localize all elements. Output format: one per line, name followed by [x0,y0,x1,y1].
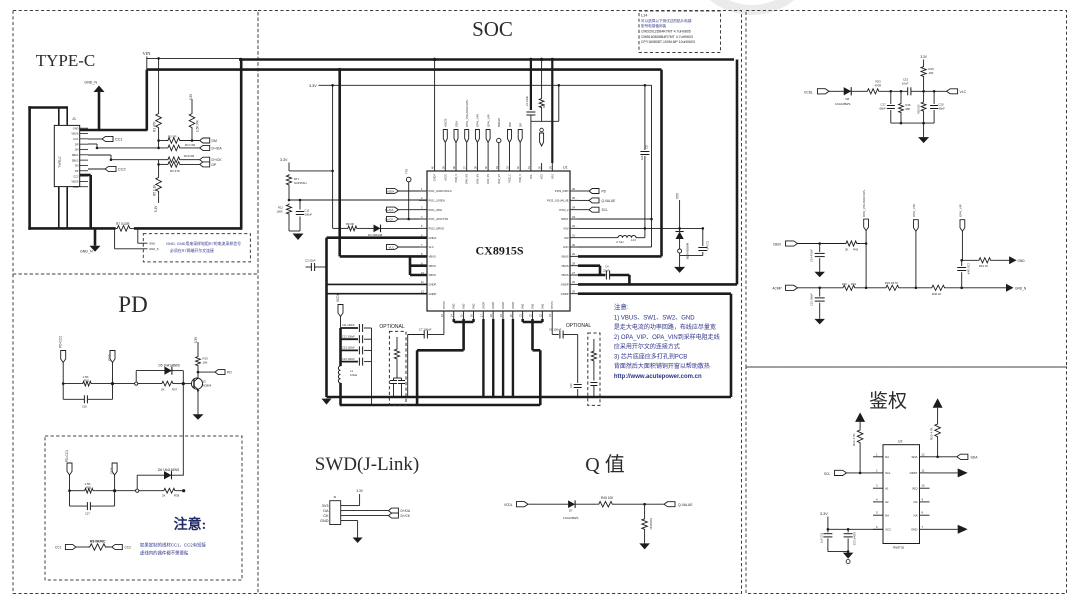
svg-text:IRQ: IRQ [912,486,918,490]
junction VIN-R1 [157,57,160,60]
tag D+/DA (swd) [388,508,398,513]
U1 right pin 31 stub [570,237,578,239]
wire R33 top [541,60,543,98]
svg-text:PD: PD [227,371,232,375]
wire vlc gnd rail [891,122,934,124]
wire divider to pin2 [289,199,427,201]
tag OPA_VOL vertical [864,219,869,231]
svg-text:GNDP: GNDP [482,301,485,309]
wire SW2 join [454,321,474,324]
wire DP row b [184,163,200,165]
junction bus1 pin40 [433,58,436,61]
bus1 right corner vertical x737 [736,60,739,285]
junction vlc gnd n1 [900,122,903,125]
wire C10 to busA [577,389,579,397]
svg-text:ISEN: ISEN [387,189,394,193]
wire top tag DP [519,143,521,163]
svg-text:DP: DP [519,123,523,127]
svg-text:PIO1_1/ISEN: PIO1_1/ISEN [429,198,445,202]
svg-text:CC2: CC2 [73,174,79,178]
svg-text:SW2: SW2 [463,303,466,309]
wire pin35 to QV tag [578,199,589,201]
wire D5 left up [135,371,137,382]
capacitor C4 22uF [605,271,607,280]
wire C7 down [407,335,409,398]
svg-text:A1: A1 [885,486,889,490]
svg-text:CK: CK [323,514,329,518]
wire CC1 to R8 [76,546,88,548]
U1 right pin 27 stub [570,274,578,276]
tag OPA_VIN vertical [914,220,919,232]
svg-text:C12 100nF: C12 100nF [342,334,355,338]
resistor R23 470R [866,89,883,94]
svg-text:DN: DN [75,148,79,152]
joint R12-C11 [289,230,300,232]
wire SW2 down [462,322,465,350]
GND busB [340,404,541,407]
U2 left pin 4 stub [873,501,883,503]
resistor R46 510R [642,518,648,533]
wire C2 top [702,228,704,246]
svg-text:1: 1 [421,187,423,191]
tag ISEN (rt) [786,241,798,246]
svg-text:GND: GND [73,126,79,130]
svg-text:CC1: CC1 [73,137,79,141]
J1 right pin stub GND [80,127,88,129]
junction DM row left [157,139,160,142]
wire GND_N bottom stem [94,228,97,245]
GND right vertical x731 [730,294,733,397]
wire DA row b [184,147,200,149]
capacitor C14 470nF [815,252,825,254]
wire 3.3V divider horiz [289,170,333,172]
wire VCDL to D7 [528,503,568,505]
svg-text:3.3V: 3.3V [920,55,927,59]
wire ACMP row a [798,287,842,289]
wire SW1 to busB [539,350,542,405]
U2 right pin 8 stub [920,514,930,516]
wire C21-C22 join [828,551,848,553]
bottom GND bus right [134,227,241,230]
svg-text:DN: DN [75,164,79,168]
svg-text:PIO2_C: PIO2_C [509,174,512,183]
svg-text:GND: GND [73,185,79,189]
junction bus2 x339 [338,68,341,71]
wire D5 right [172,370,183,372]
wire R15 top tick [923,60,925,66]
svg-text:VBUS: VBUS [561,254,569,258]
svg-text:R9 0R: R9 0R [346,222,354,226]
wire VBUS corner row [340,255,427,258]
svg-text:C26: C26 [82,405,87,409]
capacitor C8 [640,151,649,153]
svg-text:SW2: SW2 [472,303,475,309]
svg-text:R12: R12 [278,206,283,210]
capacitor C9 (opt) [590,382,597,384]
svg-text:PD: PD [118,292,147,317]
svg-text:3V3: 3V3 [322,504,329,508]
diode D4 [374,225,381,233]
resistor R1 47K [156,112,162,132]
U1 top pin 37 stub [466,163,468,171]
svg-text:GND: GND [320,519,329,523]
svg-text:R24 4.7K: R24 4.7K [852,433,856,446]
svg-text:GND: GND [1018,259,1026,263]
wire BTST1 to C6 [552,334,559,336]
capacitor C26 [83,395,85,403]
U1 right pin 32 stub [570,227,578,229]
svg-text:ACMP: ACMP [772,287,781,291]
wire R31 bottom [396,362,398,378]
svg-text:GNDP: GNDP [492,301,495,309]
wire GND net down to inner box [182,384,184,476]
svg-text:10K: 10K [203,361,208,365]
svg-text:R25 4.7K: R25 4.7K [930,427,934,440]
U2 left pin 2 stub [873,472,883,474]
junction vlc n2 [900,90,903,93]
svg-text:GNDP: GNDP [512,301,515,309]
svg-text:5: 5 [421,224,423,228]
capacitor C11 100nF [358,324,360,332]
svg-text:VBUS: VBUS [561,273,569,277]
wire pin36 to PD tag [578,190,589,192]
svg-text:SCL: SCL [824,472,830,476]
svg-text:OPA_VIP: OPA_VIP [959,204,963,217]
J2 pin stub 3V3 [341,505,346,507]
wire SW row [578,237,618,239]
wire R18 bottom [923,114,925,123]
svg-text:VBUS: VBUS [429,264,437,268]
power flag GND_N top arrow [94,86,105,93]
resistor R33 1R [539,98,544,111]
svg-text:D+/CK: D+/CK [385,217,393,221]
svg-text:R16: R16 [906,103,911,107]
U1 top pin 35 stub [487,163,489,171]
junction TP2 pin4 [407,218,410,221]
U2 right pin 7 stub [920,528,930,530]
wire SW1 join [523,321,543,324]
U1 bottom pin 16 stub [472,311,474,319]
tag SCL (auth) [835,470,847,475]
wire SCL to U2 [847,472,874,474]
ground C14 arrow [814,272,825,278]
U1 top pin 38 stub [455,163,457,171]
wire top tag SDA [455,143,457,163]
U1 left pin 8 stub [419,255,427,257]
wire R1 top [158,58,160,112]
svg-text:BTST2: BTST2 [443,301,446,309]
svg-text:U2: U2 [898,440,902,444]
wire D6 right [172,474,184,476]
svg-text:11: 11 [922,468,925,472]
svg-text:OPA_VO: OPA_VO [466,174,469,184]
U1 top pin 29 stub [551,163,553,171]
wire GND sense horizontal [138,242,148,244]
svg-text:5.1V: 5.1V [154,205,158,212]
IC U1 CX8915S body [427,171,570,311]
svg-text:C16 100nF: C16 100nF [342,357,355,361]
diode D9 up [675,232,683,240]
svg-text:ISEN: ISEN [773,242,781,246]
note box kelvin connection [143,234,250,262]
capacitor C2 [698,247,707,249]
svg-text:R10 1K: R10 1K [979,264,988,268]
capacitor C11 100nF [296,211,304,213]
wire PD row b [94,383,136,385]
wire VBUS vertical to connector [146,70,149,130]
wire top tag DM [509,143,511,163]
wire J1 top pin A1 [58,108,60,126]
svg-text:VOL: VOL [530,173,533,179]
wire J1 top pin B12 [66,108,68,126]
VIN stub tick [146,57,148,60]
junction Q3 collector node [197,371,200,374]
svg-text:鉴权: 鉴权 [869,390,907,412]
wire top tag OPA_VIN [476,143,478,163]
svg-text:R37: R37 [172,388,178,392]
wire L14 up [644,228,646,237]
wire C11 top [299,200,301,210]
resistor R45 10K [597,501,616,507]
svg-text:GNDP: GNDP [561,282,569,286]
U1 bottom pin 15 stub [463,311,465,319]
svg-text:VBUS: VBUS [71,180,78,184]
wire DP row a [159,163,167,165]
svg-text:3.3V: 3.3V [356,489,363,493]
thick bus left vertical [28,106,31,230]
tag Q-VALUE (soc) [589,198,599,203]
resistor R2 0R [167,138,184,144]
svg-text:3.3V: 3.3V [280,158,288,162]
U2 right pin 10 stub [920,487,930,489]
tag VCDL vertical [338,305,343,317]
wire SW2 to busB [416,350,419,405]
svg-text:7: 7 [421,243,423,247]
wire gnd node horizontal [680,254,703,256]
transistor Q3 base bar [193,380,195,389]
wire top tag OPA_VIP [487,143,489,163]
capacitor C15 10nF [907,87,909,95]
U1 top pin 39 stub [444,163,446,171]
wire OPA_VOL down [865,231,867,288]
U1 right pin 36 stub [570,190,578,192]
wire cap row C16 100nF right [364,361,372,363]
svg-text:是走大电流的功率回路，布线应尽量宽: 是走大电流的功率回路，布线应尽量宽 [614,323,716,331]
svg-text:68K: 68K [906,107,911,111]
svg-text:C13 100nF: C13 100nF [342,346,355,350]
transistor Q3 emitter [194,386,198,389]
tag SCL (soc) [589,207,599,212]
svg-text:注意:: 注意: [614,302,629,311]
svg-text:2N3904: 2N3904 [202,384,212,388]
wire GNDP bottom 2 [492,319,494,397]
junction open node (D5 left) [135,382,138,385]
wire C8 bottom [644,156,646,228]
wire J1 CC2 pin [88,168,105,170]
tag CC1 vertical (PD) [112,463,117,475]
svg-text:7: 7 [922,525,924,529]
wire VCC row [828,528,883,530]
wire ACMP row c [903,287,931,289]
U1 top pin 30 stub [541,163,543,171]
wire R7 right to GND sense [137,228,139,243]
svg-text:OPA_SN: OPA_SN [487,174,490,184]
optional left box [389,331,406,405]
wire C26 left [63,398,84,400]
wire SWD GND [346,520,358,522]
junction J1 CK [110,158,113,161]
svg-text:VLC: VLC [429,245,434,249]
svg-text:PIO2_0/RXD: PIO2_0/RXD [429,226,445,230]
wire GNDA vertical [325,238,328,397]
wire R24 top [859,422,861,429]
svg-text:27: 27 [572,271,575,275]
J1 right pin stub DP [80,143,88,145]
wire DM row a [159,140,167,142]
svg-text:VIN: VIN [143,51,152,56]
flag arrow NRST [958,468,968,477]
svg-text:可以选择以下测试过的贴片电感:: 可以选择以下测试过的贴片电感: [641,18,692,23]
resistor R22 48.7K [884,285,902,290]
svg-text:型号电感值封装: 型号电感值封装 [641,23,667,28]
wire GND row (auth) [930,528,958,530]
link CK-DP rows [158,160,160,165]
wire VBUS left vertical x410 [409,256,412,275]
svg-text:Q-VALUE: Q-VALUE [678,503,693,507]
wire VBUS28 row [578,264,600,267]
wire R10 to GND flag [994,259,1009,261]
wire ISEN row a [798,243,845,245]
resistor R42 2K [845,241,861,246]
wire CC1 row b [96,490,138,492]
U2 right pin 11 stub [920,472,930,474]
svg-text:DM: DM [212,139,217,143]
svg-text:SW1: SW1 [532,303,535,309]
svg-text:NRGN: NRGN [497,118,501,127]
tag SDA vertical [454,130,458,143]
tag PD-CC2 top [540,133,544,146]
svg-text:R1 47K: R1 47K [153,120,157,132]
U1 bottom pin 13 stub [443,311,445,319]
wire Q3 emitter to GND [197,396,199,414]
wire R24 bottom [859,447,861,473]
svg-text:29: 29 [572,252,575,256]
wire C15 to busA [393,384,395,398]
J1 right pin stub SBU1 [80,154,88,156]
capacitor C13 100nF (rt) [815,297,825,299]
svg-text:D+/CK: D+/CK [212,158,223,162]
wire C17 top [890,91,892,104]
svg-text:GNDP: GNDP [434,174,437,182]
svg-text:2: 2 [876,468,878,472]
wire C13b bottom [819,303,821,319]
tag DM vertical [508,130,512,143]
svg-text:3: 3 [876,484,878,488]
capacitor C20 68nF [930,105,938,107]
svg-text:VBUS: VBUS [429,254,437,258]
wire OPA_VIP down [961,231,963,260]
tag VLC [387,244,399,249]
wire D5 right down [182,371,184,384]
U1 left pin 9 stub [419,265,427,267]
junction rail x558 [558,84,561,87]
tag CC1 jumper [65,544,76,549]
wire node up to rail [558,85,560,121]
wire C8 top [644,85,646,150]
svg-text:22uF: 22uF [603,269,610,273]
svg-text:SDA: SDA [971,455,979,459]
diode D7 1N4148WS [568,500,575,508]
inductor L14 4.7uH [618,235,636,237]
wire C18 to busA [401,384,403,398]
svg-text:GNDA: GNDA [429,236,437,240]
wire C19 top [961,260,963,266]
svg-text:C14 470nF: C14 470nF [810,249,814,262]
junction bus1 R33 [540,58,543,61]
tag DP [200,162,210,167]
wire R32 top [593,339,595,350]
U2 right pin 9 stub [920,501,930,503]
ground busA arrow [322,399,332,405]
wire C9 to busA [593,386,595,398]
svg-text:OPA_VN: OPA_VN [476,174,479,184]
wire pin34 to SCL tag [578,209,589,211]
testpoint circle NRGN [497,138,501,142]
U1 left pin 5 stub [419,227,427,229]
U1 left pin 3 stub [419,209,427,211]
svg-text:D8: D8 [846,97,850,101]
J1 right pin stub DN [80,148,88,150]
U1 left pin 7 stub [419,246,427,248]
wire C15 to VLC [911,90,947,92]
wire R33 bottom [541,111,543,122]
svg-text:D6 1N4148WS: D6 1N4148WS [158,468,179,472]
svg-text:CC1: CC1 [115,138,123,142]
power arrow R24 [855,412,865,422]
wire Rq bottom [644,533,646,544]
svg-text:SW1: SW1 [522,303,525,309]
wire R25 bottom [937,441,939,457]
svg-text:68nF: 68nF [939,107,946,111]
junction PD row CC2 [111,382,114,385]
wire D9 to gnd node [679,253,681,255]
svg-text:C19 10nF: C19 10nF [967,263,971,275]
wire R23 to C15 [883,90,908,92]
wire C15 top [393,378,395,381]
power flag GND (vip) [1009,256,1017,264]
svg-text:PIO1_0/ADC/SCLK: PIO1_0/ADC/SCLK [429,189,453,193]
U1 top pin 32 stub [519,163,521,171]
wire CK to pin4 [399,218,420,220]
wire NRST row [578,218,652,220]
tag D+/CK [200,157,210,162]
wire GND_S sense horizontal [115,248,148,250]
wire SWD DA [346,510,389,512]
svg-text:10: 10 [922,484,926,488]
svg-text:R45 10K: R45 10K [601,496,614,500]
U1 right pin 33 stub [570,218,578,220]
capacitor C18 (opt) [398,380,405,382]
U1 right pin 29 stub [570,255,578,257]
wire D9 bottom [679,239,681,249]
wire CK row to resistors [111,159,167,161]
junction bus1 VIN entry [239,58,242,61]
svg-text:12: 12 [421,289,424,293]
svg-text:DP: DP [75,142,79,146]
tag CC2 jumper [112,544,123,549]
wire C19 bottom [961,272,963,288]
capacitor C19 10nF [957,267,966,269]
